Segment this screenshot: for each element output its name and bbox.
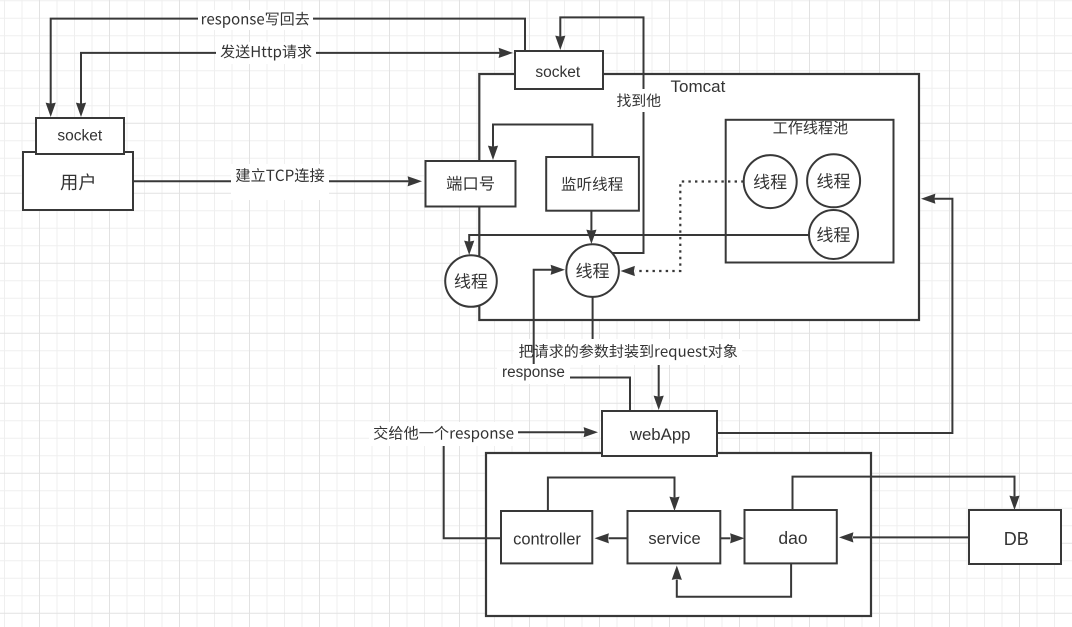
wire: 把请求的参数封装到request对象 from 线程 circle down to webApp: [593, 297, 664, 410]
label: 用户: [61, 173, 94, 190]
svg-text:socket: socket: [57, 128, 102, 145]
wire: 找到他 from 线程 circle up over to server socket top: [555, 17, 643, 253]
box: 监听线程 (listener thread): [546, 157, 639, 211]
svg-text:Tomcat: Tomcat: [671, 77, 726, 96]
box: controller: [501, 511, 592, 563]
label: 线程 pool top-right: [817, 173, 850, 189]
circle: pool 线程 bottom: [809, 210, 858, 259]
wire: webApp right edge up to Tomcat right edge: [717, 194, 952, 433]
wire: DB to dao: [839, 532, 969, 542]
wire: loop from controller top to service top: [548, 478, 680, 512]
box: client socket: [36, 118, 124, 154]
wire: 监听线程 down to 线程 circle: [586, 211, 596, 244]
wire: response写回去 from server socket top to client socket top: [46, 19, 525, 117]
svg-text:response: response: [502, 364, 565, 381]
wire: dotted from pool 线程 circle to free 线程 circle: [621, 182, 744, 277]
worker thread pool box 工作线程池: [726, 120, 894, 263]
wire: pool 线程 circle left to free 线程 circle: [464, 235, 809, 255]
box: server socket: [515, 51, 603, 89]
box: 用户 (user): [23, 152, 133, 210]
svg-text:socket: socket: [535, 64, 580, 81]
edge label: response写回去: [198, 10, 313, 30]
svg-text:controller: controller: [513, 530, 581, 548]
label: 监听线程: [562, 177, 623, 191]
wire: loop from dao top to DB top: [793, 477, 1020, 510]
box: 端口号 (port): [426, 161, 516, 207]
box: webApp: [602, 411, 717, 456]
wire: 发送Http请求 from client socket top to server socket: [76, 48, 513, 117]
wire: 建立TCP连接 from 用户 to 端口号: [133, 176, 422, 186]
wire: loop from dao bottom to service bottom: [672, 563, 791, 596]
label: 线程 pool top-left: [754, 174, 787, 190]
edge label: 发送Http请求: [216, 42, 316, 64]
wire: 交给他一个response from controller to webApp left: [444, 427, 598, 538]
svg-text:dao: dao: [778, 528, 807, 548]
Tomcat container box: [479, 74, 919, 320]
edge label: 交给他一个response: [369, 422, 518, 446]
box: dao: [745, 510, 837, 563]
circle: pool 线程 top-left: [744, 155, 797, 208]
edge label: 把请求的参数封装到request对象: [514, 339, 742, 365]
label: 线程 free right: [576, 263, 609, 279]
edge label: 找到他: [611, 89, 666, 112]
circle: free 线程 left: [445, 255, 497, 307]
wire: service to dao: [720, 533, 744, 543]
circle: pool 线程 top-right: [807, 154, 860, 207]
box: service: [628, 511, 721, 563]
label: 工作线程池: [773, 121, 847, 135]
wire: response from webApp top to 线程 circle: [534, 265, 630, 411]
wire: loop from 监听线程 top to 端口号 top: [488, 125, 593, 161]
svg-text:DB: DB: [1004, 529, 1029, 549]
webApp container box: [486, 453, 871, 616]
edge label: response: [497, 364, 570, 384]
wire: service to controller: [595, 533, 628, 543]
svg-text:service: service: [648, 530, 700, 548]
label: 端口号: [447, 176, 494, 191]
box: DB: [969, 510, 1061, 564]
circle: free 线程 right (worker): [566, 244, 619, 297]
edge label: 建立TCP连接: [231, 164, 329, 200]
label: 线程 free left: [455, 273, 488, 289]
svg-text:webApp: webApp: [629, 425, 691, 444]
label: 线程 pool bottom: [817, 227, 850, 243]
